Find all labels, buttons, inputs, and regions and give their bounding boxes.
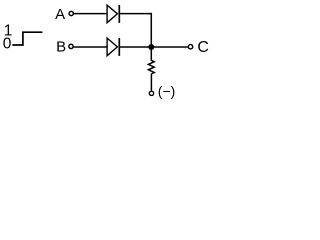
junction node dot bbox=[148, 44, 154, 50]
logic step waveform bbox=[12, 32, 42, 45]
terminal B bbox=[69, 44, 73, 48]
wire resistor to bottom terminal bbox=[150, 74, 152, 91]
diode D1 cathode bar bbox=[118, 5, 120, 23]
diode D1 triangle bbox=[107, 5, 117, 23]
svg-text:B: B bbox=[56, 39, 66, 56]
resistor R zigzag bbox=[148, 60, 154, 74]
terminal (-) bbox=[149, 91, 153, 95]
svg-text:A: A bbox=[55, 6, 65, 23]
svg-text:C: C bbox=[197, 39, 209, 56]
terminal C bbox=[188, 45, 192, 49]
svg-text:0: 0 bbox=[3, 35, 12, 52]
wire A to D1 anode bbox=[74, 13, 107, 15]
terminal A bbox=[69, 11, 73, 15]
wire B to D2 anode bbox=[74, 46, 107, 48]
diode D2 cathode bar bbox=[118, 38, 120, 56]
diode D2 triangle bbox=[107, 38, 117, 56]
wire junction to terminal C bbox=[151, 46, 187, 48]
vertical wire corner to resistor bbox=[150, 13, 152, 61]
svg-text:(−): (−) bbox=[158, 83, 176, 99]
wire D2 to junction bbox=[119, 46, 151, 48]
wire D1 to corner bbox=[119, 13, 152, 15]
